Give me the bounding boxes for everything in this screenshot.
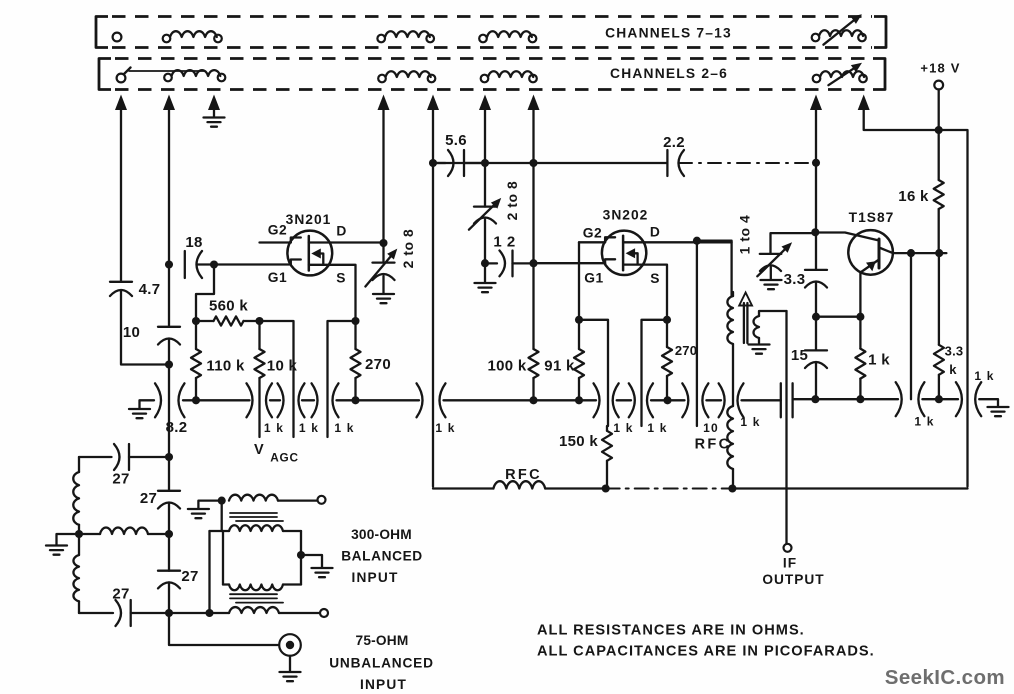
wire G2 node to 150k line: [579, 320, 608, 426]
junction C18 right: [210, 260, 218, 268]
junction C12 right: [529, 259, 537, 267]
wire G1 3N202: [534, 262, 606, 264]
transformer T1 tuning arrow: [739, 293, 752, 344]
svg-text:D: D: [650, 225, 660, 240]
svg-text:18: 18: [185, 234, 202, 251]
junction gate line top: [529, 159, 537, 167]
svg-text:300-OHM: 300-OHM: [351, 527, 412, 542]
svg-text:G1: G1: [268, 270, 287, 285]
label OUTPUT: [762, 572, 824, 587]
3N202 source lead: [623, 265, 667, 320]
balun top winding: [229, 495, 317, 501]
wire input line b: [168, 457, 170, 534]
wire shield segment 7: [651, 399, 685, 401]
trimmer capacitor 1 to 4: [757, 242, 792, 279]
label BALANCED: [341, 549, 423, 564]
svg-text:G2: G2: [583, 226, 602, 241]
resistor 560 k: [196, 316, 260, 325]
junction base node: [811, 228, 819, 236]
svg-text:4.7: 4.7: [139, 281, 161, 298]
feedthrough arc: [594, 383, 600, 417]
arrow into channel box (left rail): [427, 95, 439, 111]
label 1 k ft1: [264, 421, 284, 435]
svg-text:1 k: 1 k: [334, 421, 354, 435]
svg-text:150 k: 150 k: [559, 433, 598, 450]
junction drain 3N201: [379, 239, 387, 247]
label 3.3 k line2: [949, 362, 957, 377]
svg-text:560 k: 560 k: [209, 298, 248, 315]
feedthrough arc: [333, 383, 339, 417]
junction S/270: [351, 317, 359, 325]
wire C18 right to G1: [198, 263, 291, 265]
wire input line c: [168, 534, 170, 613]
feedthrough arc: [299, 383, 305, 417]
svg-text:15: 15: [791, 347, 808, 364]
3N201 source lead: [309, 265, 356, 321]
label 18: [185, 234, 202, 251]
arrow into channel box (antenna line): [115, 95, 127, 111]
junction 100k bottom: [529, 396, 537, 404]
svg-text:RFC: RFC: [505, 467, 542, 483]
ground secondary: [749, 345, 770, 354]
wire 15 to shield: [815, 317, 817, 400]
svg-text:2 to 8: 2 to 8: [401, 229, 416, 269]
wire C4.7 to corner: [121, 290, 169, 365]
svg-text:75-OHM: 75-OHM: [356, 633, 409, 648]
junction 110k bottom: [192, 396, 200, 404]
svg-text:OUTPUT: OUTPUT: [762, 572, 824, 587]
label 27 a: [112, 471, 129, 488]
svg-text:INPUT: INPUT: [351, 570, 398, 585]
svg-text:1 k: 1 k: [868, 352, 890, 369]
label 5.6: [445, 132, 467, 149]
wire top link: [433, 162, 667, 164]
svg-text:1 k: 1 k: [914, 415, 934, 429]
svg-text:3N202: 3N202: [603, 208, 649, 223]
inductor L in box2 #2: [378, 71, 435, 82]
wire to 75 ohm connector: [169, 613, 279, 645]
svg-text:1 to 4: 1 to 4: [738, 215, 753, 255]
TIS87 emitter arrow: [866, 261, 876, 271]
label 1 k ft4: [435, 421, 455, 435]
junction drain 3N202: [693, 237, 701, 245]
svg-text:+18 V: +18 V: [920, 61, 960, 76]
svg-text:10: 10: [123, 324, 140, 341]
wire shield segment 10: [793, 398, 898, 400]
junction 270 bottom: [351, 396, 359, 404]
resistor 91 k: [574, 320, 584, 401]
inductor input coil horizontal: [79, 527, 169, 534]
feedthrough arc: [682, 383, 688, 417]
terminal +18 V: [934, 81, 943, 90]
note capacitances: [537, 644, 875, 660]
3N201 gate2 lead: [260, 241, 291, 243]
3N202 substrate arrow: [626, 248, 638, 264]
transformer T1 secondary winding: [754, 311, 787, 343]
svg-text:1 k: 1 k: [264, 421, 284, 435]
feedthrough arc: [896, 382, 902, 416]
label 150 k: [559, 433, 598, 450]
label 3N201: [286, 212, 332, 227]
svg-text:INPUT: INPUT: [360, 677, 407, 692]
wire balun left link: [210, 530, 224, 532]
wire S node to drop: [642, 320, 668, 426]
svg-text:3.3: 3.3: [945, 344, 964, 359]
svg-text:S: S: [336, 271, 346, 286]
label 1 to 4: [738, 215, 753, 255]
junction 3.3k bottom: [935, 395, 943, 403]
junction 3.3/15: [812, 313, 820, 321]
3N202 G2 drop wire: [578, 242, 580, 319]
svg-text:SeekIC.com: SeekIC.com: [885, 666, 1005, 689]
feedthrough plates at IF line: [781, 383, 793, 417]
balun core upper: [230, 513, 283, 521]
wire IF output line: [785, 311, 787, 544]
feedthrough arc: [738, 383, 744, 417]
junction 1k emitter bottom: [856, 395, 864, 403]
label 110 k: [206, 358, 245, 375]
feedthrough arc: [155, 383, 161, 417]
feedthrough arc: [440, 383, 446, 417]
junction C12 left: [481, 259, 489, 267]
wire input bottom row: [169, 612, 229, 614]
choke RFC (horizontal): [493, 481, 545, 488]
svg-text:IF: IF: [783, 556, 797, 571]
svg-text:T1S87: T1S87: [849, 210, 895, 225]
terminal 300-ohm lower: [320, 609, 328, 617]
TIS87 emitter lead: [860, 260, 879, 317]
trimmer capacitor 2 to 8 (#1): [365, 243, 397, 293]
svg-text:D: D: [336, 224, 346, 239]
svg-text:10: 10: [703, 421, 719, 435]
wire trimmer to base node: [771, 233, 816, 254]
wire bottom rail left: [433, 487, 493, 489]
wire bottom rail dashdot: [606, 488, 733, 490]
label V AGC: [254, 442, 299, 465]
label G1 (3N202): [584, 271, 603, 286]
label S (3N201): [336, 271, 346, 286]
feedthrough arc: [312, 383, 318, 417]
label 10 k: [267, 358, 298, 375]
arrow into channel box (3N202 gate line): [528, 95, 540, 111]
capacitor 27 b1: [158, 491, 180, 509]
arrow into channel box (IF rail): [810, 95, 822, 111]
3N201 gate1 electrode: [291, 260, 301, 265]
capacitor 4.7: [110, 282, 132, 296]
wire drain line down: [382, 107, 384, 243]
svg-text:27: 27: [112, 586, 129, 603]
capacitor 27 b2: [158, 571, 180, 589]
label 270 (2nd): [675, 343, 697, 358]
arrow into channel box (input line): [163, 95, 175, 111]
label 27 b1: [140, 490, 157, 507]
ground under third arrow: [204, 108, 225, 127]
feedthrough arc: [956, 382, 962, 416]
label G1 (3N201): [268, 270, 287, 285]
junction input bottom 2: [205, 609, 213, 617]
label D (3N201): [336, 224, 346, 239]
junction 91k top: [575, 316, 583, 324]
junction collector/16k: [935, 249, 943, 257]
variable inductor in box2: [813, 63, 867, 85]
feedthrough arc: [417, 383, 423, 417]
wire balun top link: [221, 501, 223, 531]
terminal in channels 7-13 box: [113, 33, 122, 42]
svg-text:27: 27: [112, 471, 129, 488]
balun middle winding: [223, 525, 301, 590]
label 2 to 8 (#2): [505, 181, 520, 221]
junction 560k left: [192, 317, 200, 325]
wire shield right end: [979, 399, 998, 406]
junction 270-2 bottom: [663, 396, 671, 404]
resistor 1 k (emitter): [855, 317, 865, 400]
label CHANNELS 7-13: [605, 26, 732, 41]
svg-text:1 2: 1 2: [493, 234, 515, 251]
3N202 gate1 electrode: [605, 259, 615, 264]
label CHANNELS 2-6: [610, 66, 728, 81]
svg-text:AGC: AGC: [270, 451, 299, 465]
wire shield segment 5: [444, 399, 597, 401]
label G2 (3N201): [268, 223, 287, 238]
terminal IF output: [784, 544, 792, 552]
wire shield segment 6: [617, 399, 631, 401]
inductor L in box1 #1: [163, 31, 222, 42]
label G2 (3N202): [583, 226, 602, 241]
arrow into channel box (mixer line): [479, 95, 491, 111]
label 1 k ft5: [613, 421, 633, 435]
junction 270-2 top: [663, 316, 671, 324]
terminal 300-ohm upper: [318, 496, 326, 504]
shield box CHANNELS 2-6 (dashed enclosure): [99, 59, 885, 90]
wire emitter node link: [816, 316, 860, 318]
feedthrough arc: [613, 383, 619, 417]
svg-text:8.2: 8.2: [166, 419, 188, 436]
wire S drop: [328, 321, 356, 437]
label 8.2: [166, 419, 188, 436]
wire 3N202 gate line: [532, 107, 534, 263]
wire left rail: [432, 107, 434, 487]
label S (3N202): [650, 271, 660, 286]
wire shield segment 4: [337, 399, 420, 401]
label 2 to 8 (#1): [401, 229, 416, 269]
label 4.7: [139, 281, 161, 298]
resistor 100 k: [529, 263, 539, 400]
balun bottom winding: [229, 607, 320, 613]
resistor 10 k: [255, 321, 265, 437]
arrow into channel box (+18V feed): [858, 95, 870, 111]
3N202 drain lead: [623, 241, 732, 243]
feedthrough arc: [247, 383, 253, 417]
inductor L in box2 #1: [164, 70, 225, 81]
trimmer capacitor 2 to 8 (#2): [469, 198, 501, 263]
svg-text:16 k: 16 k: [898, 188, 929, 205]
wire step to 560k node: [196, 265, 214, 322]
label 1 k ft6: [647, 421, 667, 435]
wire IF rail upper: [815, 107, 817, 232]
arrow into channel box (ground stub): [208, 95, 220, 111]
connector 75-ohm jack: [279, 634, 301, 656]
feedthrough arc: [975, 382, 981, 416]
wire balun tap line: [208, 531, 210, 613]
capacitor 3.3 (base): [805, 270, 827, 288]
resistor 150 k: [602, 426, 612, 489]
svg-text:100 k: 100 k: [487, 358, 526, 375]
junction emitter node: [856, 313, 864, 321]
svg-text:S: S: [650, 271, 660, 286]
svg-text:3N201: 3N201: [286, 212, 332, 227]
wire mixer line top: [484, 107, 486, 207]
feedthrough arc: [629, 383, 635, 417]
capacitor 5.6: [433, 150, 485, 176]
label 1 k ft7: [740, 415, 760, 429]
label 10: [123, 324, 140, 341]
wire bottom rail 2: [545, 487, 606, 489]
ground under mixer line: [475, 263, 496, 292]
junction C18 left: [165, 260, 173, 268]
inductor L in box1 #2: [377, 31, 434, 42]
transformer T1 primary winding: [727, 292, 733, 406]
3N202 gate2 lead: [579, 241, 605, 243]
label 1 k ft3: [334, 421, 354, 435]
label 15: [791, 347, 808, 364]
wire dash-dot to IF rail: [679, 162, 816, 164]
svg-text:ALL RESISTANCES ARE IN OHMS.: ALL RESISTANCES ARE IN OHMS.: [537, 623, 805, 639]
terminal in channels 2-6 box: [117, 68, 131, 83]
label D (3N202): [650, 225, 660, 240]
wire terminal to L (box2): [129, 70, 205, 72]
junction C5.6 right: [481, 159, 489, 167]
label INPUT (300): [351, 570, 398, 585]
ground balun top: [188, 501, 222, 519]
feedthrough arc: [702, 383, 708, 417]
svg-text:27: 27: [181, 568, 198, 585]
resistor 270 (3N202 source): [662, 320, 672, 401]
svg-text:2 to 8: 2 to 8: [505, 181, 520, 221]
label 3N202: [603, 208, 649, 223]
label 1 k (emitter): [868, 352, 890, 369]
svg-text:1 k: 1 k: [740, 415, 760, 429]
label IF: [783, 556, 797, 571]
junction C5.6 left: [429, 159, 437, 167]
label TIS87: [849, 210, 895, 225]
junction 560k right: [255, 317, 263, 325]
svg-text:G1: G1: [584, 271, 603, 286]
svg-text:BALANCED: BALANCED: [341, 549, 423, 564]
junction 91k bottom: [575, 396, 583, 404]
ground right end of shield: [988, 407, 1009, 416]
label RFC (horizontal): [505, 467, 542, 483]
choke RFC (vertical): [727, 406, 733, 487]
wire shield segment 9: [742, 399, 781, 401]
wire left coil column lower: [78, 534, 80, 555]
label 1 k ft8: [914, 415, 934, 429]
label 100 k: [487, 358, 526, 375]
svg-text:G2: G2: [268, 223, 287, 238]
junction 150k bottom: [602, 484, 610, 492]
svg-text:1 k: 1 k: [435, 421, 455, 435]
svg-text:270: 270: [675, 343, 697, 358]
label 270: [365, 356, 391, 373]
svg-text:110 k: 110 k: [206, 358, 245, 375]
label 91 k: [544, 358, 575, 375]
svg-text:2.2: 2.2: [663, 134, 685, 151]
TIS87 collector lead: [879, 248, 946, 254]
label 27 b2: [181, 568, 198, 585]
wire arrow to C4.7: [120, 107, 122, 282]
label 1 k ft2: [299, 421, 319, 435]
wire input line mid: [168, 339, 170, 458]
label 1 k ft9: [974, 369, 994, 383]
junction balun top: [218, 497, 226, 505]
label 560 k: [209, 298, 248, 315]
label 3.3 k line1: [945, 344, 964, 359]
variable inductor in box1: [812, 14, 866, 45]
capacitor 12: [485, 251, 534, 277]
TIS87 base lead: [815, 233, 879, 241]
svg-text:1 k: 1 k: [613, 421, 633, 435]
svg-text:CHANNELS 7–13: CHANNELS 7–13: [605, 26, 732, 41]
note resistances: [537, 623, 805, 639]
wire shield segment 2: [270, 399, 280, 401]
svg-text:270: 270: [365, 356, 391, 373]
svg-text:1 k: 1 k: [299, 421, 319, 435]
ground under trimmer #1: [373, 294, 394, 303]
3N202 gate2 electrode: [605, 237, 615, 242]
label +18 V: [920, 61, 960, 76]
wire drain to IF transformer: [697, 241, 732, 296]
wire collector feed down: [910, 253, 912, 399]
junction IF rail top: [812, 159, 820, 167]
wire drain feed down: [696, 241, 698, 426]
svg-text:CHANNELS 2–6: CHANNELS 2–6: [610, 66, 728, 81]
wire +18V down: [938, 90, 940, 131]
wire IF rail between caps: [815, 232, 817, 316]
capacitor 27 c: [79, 600, 169, 626]
label 10 ft: [703, 421, 719, 435]
label RFC (vertical): [695, 437, 732, 453]
wire shield segment 1: [183, 399, 250, 401]
junction input gnd node: [75, 530, 83, 538]
wire +18V to arrow: [864, 107, 939, 130]
svg-text:3.3: 3.3: [784, 271, 806, 288]
svg-text:91 k: 91 k: [544, 358, 575, 375]
wire coil2 to C27c: [78, 601, 80, 613]
label UNBALANCED: [329, 656, 434, 671]
resistor 270 (3N201 source): [351, 321, 361, 400]
wire shield segment 3: [302, 399, 314, 401]
label 2.2: [663, 134, 685, 151]
resistor 110 k: [191, 321, 201, 400]
capacitor 27 a: [79, 444, 169, 470]
inductor input coil #2: [73, 555, 79, 601]
svg-text:V: V: [254, 442, 264, 458]
junction collector/IF: [907, 249, 915, 257]
feedthrough arc: [918, 382, 924, 416]
wire input line upper: [168, 107, 170, 327]
junction RFC bottom: [728, 484, 736, 492]
label 16 k: [898, 188, 929, 205]
svg-text:5.6: 5.6: [445, 132, 467, 149]
label 3.3 (base): [784, 271, 806, 288]
ground input left: [46, 534, 79, 555]
junction balun mid gnd: [297, 551, 305, 559]
inductor input coil #1: [73, 472, 79, 525]
svg-text:1 k: 1 k: [647, 421, 667, 435]
wire shield segment 8: [706, 399, 721, 401]
label 75-OHM: [356, 633, 409, 648]
watermark SeekIC.com: [885, 666, 1005, 689]
label 300-OHM: [351, 527, 412, 542]
